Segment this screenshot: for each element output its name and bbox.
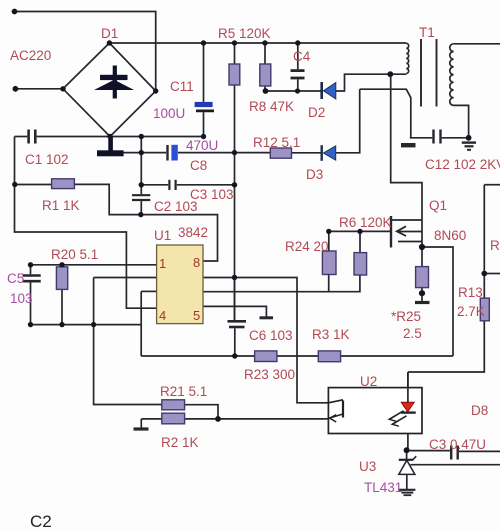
svg-text:R5 120K: R5 120K bbox=[218, 26, 271, 41]
svg-text:D8: D8 bbox=[471, 403, 488, 418]
svg-text:U2: U2 bbox=[360, 374, 377, 389]
svg-text:R23 300: R23 300 bbox=[244, 367, 295, 382]
svg-text:R12 5.1: R12 5.1 bbox=[253, 135, 300, 150]
svg-text:T1: T1 bbox=[419, 25, 435, 40]
svg-text:8: 8 bbox=[193, 255, 200, 270]
svg-text:R21 5.1: R21 5.1 bbox=[160, 384, 207, 399]
svg-text:C6 103: C6 103 bbox=[249, 328, 293, 343]
svg-text:D1: D1 bbox=[101, 26, 118, 41]
svg-text:D3: D3 bbox=[306, 167, 323, 182]
svg-text:U3: U3 bbox=[359, 459, 376, 474]
svg-text:5: 5 bbox=[193, 308, 200, 323]
svg-text:C3 103: C3 103 bbox=[190, 187, 234, 202]
svg-text:R8 47K: R8 47K bbox=[249, 99, 294, 114]
svg-text:R13: R13 bbox=[458, 285, 483, 300]
svg-text:103: 103 bbox=[10, 291, 33, 306]
svg-text:C4: C4 bbox=[293, 49, 311, 64]
svg-text:TL431: TL431 bbox=[364, 480, 402, 495]
svg-text:AC220: AC220 bbox=[10, 48, 51, 63]
svg-text:8N60: 8N60 bbox=[434, 228, 466, 243]
svg-text:*R25: *R25 bbox=[391, 309, 421, 324]
svg-text:3842: 3842 bbox=[178, 225, 208, 240]
svg-text:C11: C11 bbox=[170, 79, 194, 94]
svg-text:R6 120K: R6 120K bbox=[339, 215, 392, 230]
svg-text:R2 1K: R2 1K bbox=[161, 435, 199, 450]
svg-text:2.7K: 2.7K bbox=[457, 304, 485, 319]
svg-text:R1 1K: R1 1K bbox=[42, 198, 80, 213]
svg-text:Q1: Q1 bbox=[429, 198, 447, 213]
svg-text:100U: 100U bbox=[153, 106, 185, 121]
svg-text:R3 1K: R3 1K bbox=[312, 327, 350, 342]
svg-text:C12 102 2KV: C12 102 2KV bbox=[425, 157, 500, 172]
svg-text:C2: C2 bbox=[30, 512, 52, 530]
svg-text:470U: 470U bbox=[186, 138, 218, 153]
svg-text:C3 0.47U: C3 0.47U bbox=[429, 437, 486, 452]
svg-text:1: 1 bbox=[159, 256, 166, 271]
svg-text:R24 20: R24 20 bbox=[285, 239, 329, 254]
svg-text:C1 102: C1 102 bbox=[25, 152, 69, 167]
svg-text:R20 5.1: R20 5.1 bbox=[51, 247, 98, 262]
svg-text:C8: C8 bbox=[190, 158, 207, 173]
svg-text:D2: D2 bbox=[308, 105, 325, 120]
svg-text:2.5: 2.5 bbox=[403, 326, 422, 341]
svg-text:U1: U1 bbox=[154, 228, 171, 243]
svg-text:R: R bbox=[490, 238, 500, 253]
svg-text:C5: C5 bbox=[7, 271, 24, 286]
svg-text:4: 4 bbox=[159, 308, 166, 323]
